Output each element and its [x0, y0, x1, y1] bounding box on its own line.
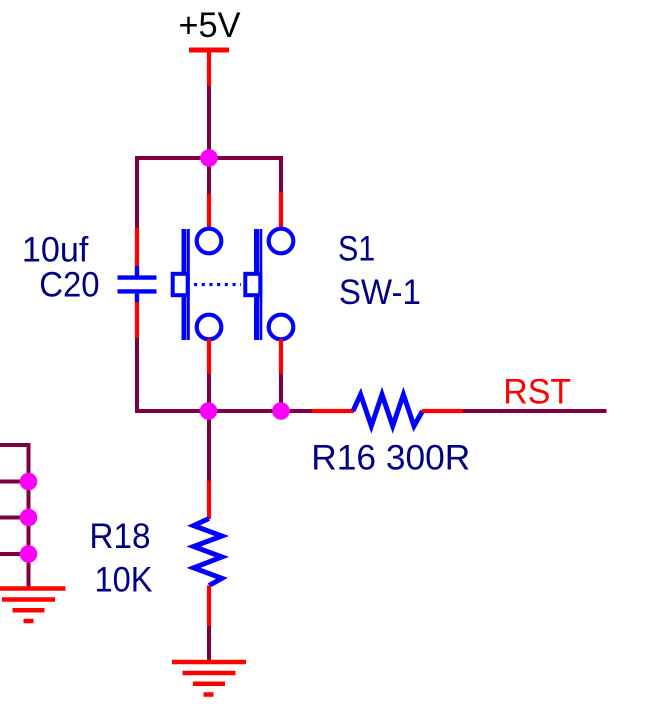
- wire left stub second: [0, 480, 29, 484]
- wire red R16 right lead: [422, 409, 463, 413]
- wire bottom horizontal: [135, 409, 313, 413]
- switch pin circle top left: [197, 229, 222, 254]
- svg-text:S1: S1: [338, 230, 375, 269]
- switch pin circle bottom left: [197, 315, 222, 340]
- wire left vertical lower: [135, 338, 139, 413]
- switch right bar: [257, 229, 261, 340]
- ground symbol bottom: [172, 662, 246, 695]
- wire junction to R18: [207, 411, 211, 481]
- power stub red: [207, 50, 211, 86]
- switch dotted link: [194, 283, 241, 286]
- switch S1: [173, 229, 294, 340]
- wire left stub fourth: [0, 552, 29, 556]
- resistor R18: [194, 519, 222, 586]
- wire left stub top: [0, 443, 31, 447]
- svg-text:C20: C20: [39, 266, 99, 305]
- wire left vertical bus: [27, 443, 31, 588]
- wire left vertical upper: [135, 156, 139, 228]
- resistor R16: [353, 395, 423, 427]
- svg-text:10uf: 10uf: [22, 231, 89, 270]
- wire red R18 bottom lead: [207, 586, 211, 627]
- node junction left second: [20, 473, 38, 491]
- wire red switch pin2 lead: [207, 194, 211, 230]
- switch left actuator: [173, 274, 188, 295]
- wire switch pin3 maroon: [207, 374, 211, 411]
- wire red switch pin3 lead: [207, 339, 211, 374]
- wire right vertical upper: [279, 156, 283, 192]
- switch left bar: [184, 229, 188, 340]
- wire switch pin4 maroon: [279, 374, 283, 411]
- node junction left fourth: [20, 545, 38, 563]
- wire red R18 top lead: [207, 481, 211, 520]
- wire red R16 left lead: [312, 409, 354, 413]
- switch right actuator: [245, 274, 260, 295]
- svg-text:10K: 10K: [95, 561, 153, 600]
- node junction left third: [20, 509, 38, 527]
- wire switch pin left upper maroon: [207, 158, 211, 194]
- svg-text:SW-1: SW-1: [339, 273, 421, 312]
- svg-text:R16 300R: R16 300R: [311, 439, 470, 478]
- svg-text:R18: R18: [89, 517, 150, 556]
- svg-text:+5V: +5V: [179, 6, 242, 45]
- switch pin circle top right: [269, 229, 294, 254]
- svg-text:RST: RST: [503, 373, 571, 412]
- wire top horizontal: [135, 156, 283, 160]
- ground symbol left: [0, 589, 66, 622]
- node junction bottom right: [272, 402, 290, 420]
- wire R18 to ground: [207, 626, 211, 662]
- node junction bottom left: [200, 402, 218, 420]
- wire +5V down to junction: [207, 86, 211, 158]
- wire left stub third: [0, 516, 29, 520]
- wire red cap bottom lead: [135, 302, 139, 338]
- capacitor C20: [118, 266, 157, 303]
- node junction top: [200, 149, 218, 167]
- wire red cap top lead: [135, 228, 139, 268]
- wire RST net: [463, 409, 607, 413]
- wire red switch pin1 lead: [279, 192, 283, 230]
- switch pin circle bottom right: [269, 315, 294, 340]
- power symbol +5V bar: [189, 48, 229, 53]
- wire red switch pin4 lead: [279, 339, 283, 374]
